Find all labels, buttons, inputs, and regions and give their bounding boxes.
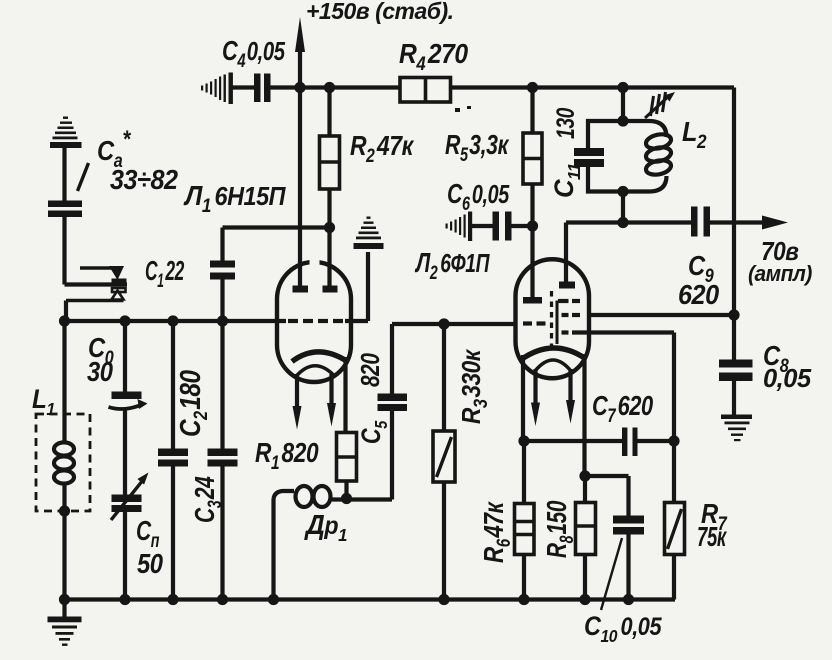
svg-text:0,05: 0,05: [763, 365, 812, 393]
svg-text:(ампл): (ампл): [748, 262, 812, 287]
svg-text:30: 30: [87, 355, 114, 387]
svg-text:620: 620: [678, 279, 719, 311]
svg-text:R1820: R1820: [255, 438, 318, 474]
svg-text:C11: C11: [548, 163, 584, 198]
svg-text:C2180: C2180: [174, 370, 211, 437]
svg-text:C40,05: C40,05: [222, 35, 286, 71]
svg-text:Л26Ф1П: Л26Ф1П: [414, 248, 490, 283]
svg-text:R8150: R8150: [542, 500, 577, 558]
svg-text:C5: C5: [357, 420, 392, 444]
svg-text:75к: 75к: [697, 522, 727, 553]
svg-text:33÷82: 33÷82: [110, 164, 178, 196]
svg-text:R4270: R4270: [399, 38, 468, 75]
svg-text:R647к: R647к: [479, 501, 515, 563]
svg-text:L2: L2: [682, 116, 706, 152]
svg-text:+150в (стаб).: +150в (стаб).: [306, 0, 454, 24]
svg-text:Др1: Др1: [304, 509, 347, 545]
svg-text:R53,3к: R53,3к: [445, 129, 510, 165]
svg-text:L1: L1: [32, 385, 55, 419]
svg-text:C100,05: C100,05: [584, 612, 662, 647]
svg-text:820: 820: [356, 353, 385, 387]
svg-text:C7620: C7620: [592, 390, 653, 426]
svg-text:C324: C324: [190, 476, 225, 523]
svg-text:R247к: R247к: [350, 131, 415, 166]
svg-text:50: 50: [137, 547, 164, 579]
svg-text:R3330к: R3330к: [458, 348, 492, 424]
svg-text:C122: C122: [145, 255, 184, 292]
svg-text:Л16Н15П: Л16Н15П: [183, 180, 287, 216]
svg-text:C60,05: C60,05: [447, 178, 510, 214]
svg-text:130: 130: [552, 107, 580, 139]
